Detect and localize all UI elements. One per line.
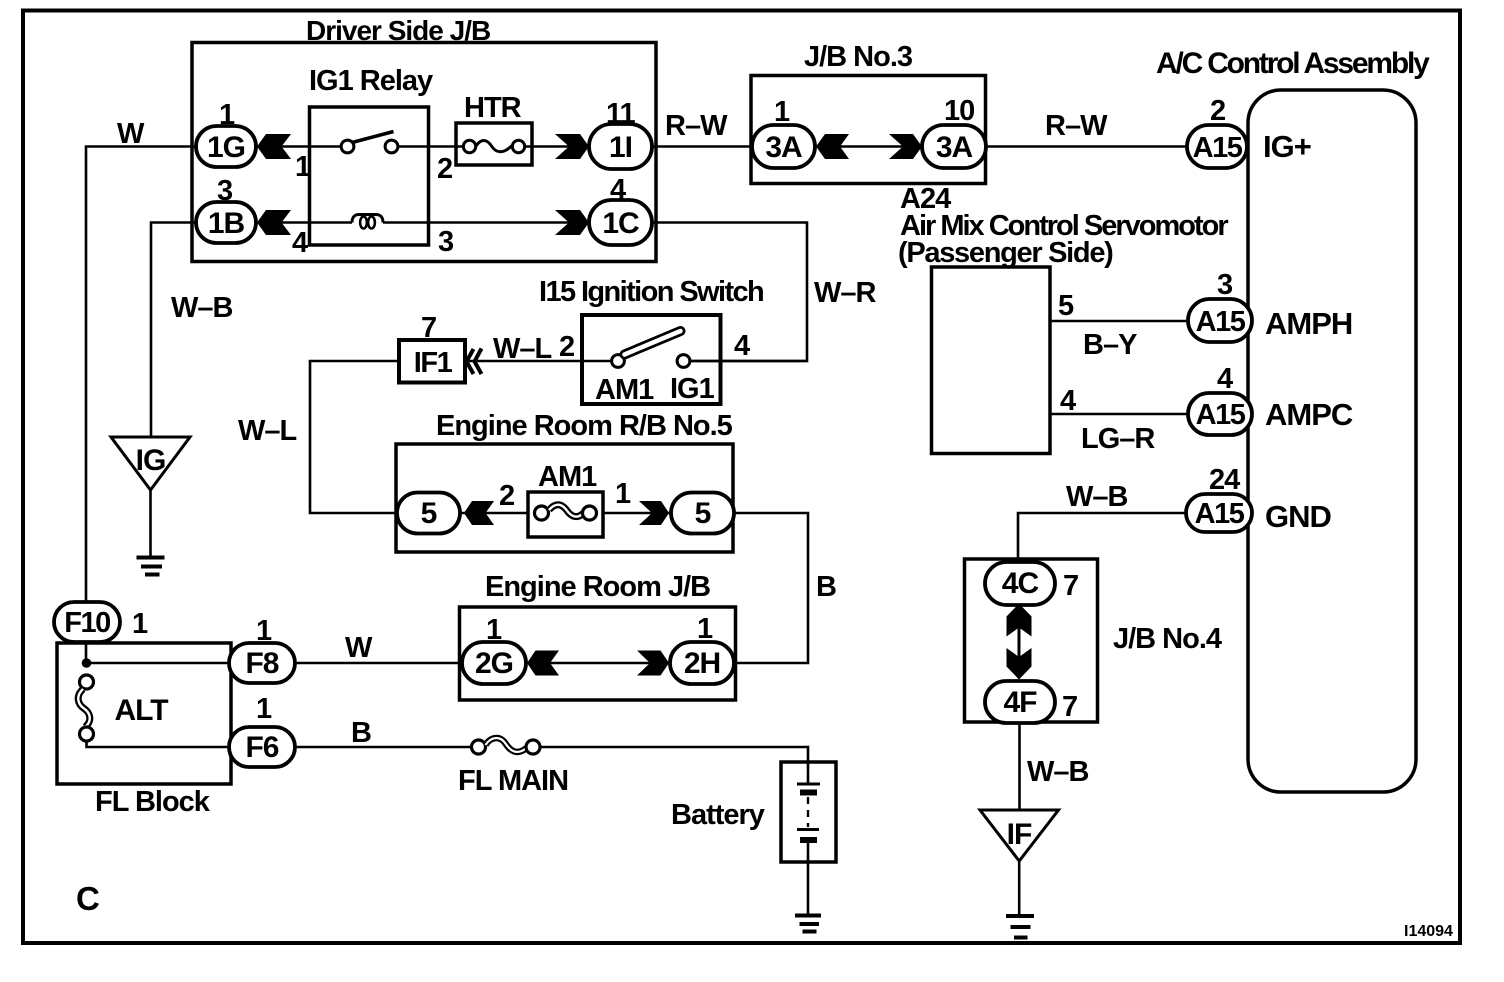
connector 3A left — [752, 125, 815, 168]
svg-text:F10: F10 — [64, 607, 110, 639]
svg-text:W: W — [345, 632, 373, 664]
svg-text:2: 2 — [559, 331, 574, 363]
servo pin 4 — [1060, 385, 1076, 417]
wire between 3A ovals — [815, 145, 922, 148]
svg-text:AM1: AM1 — [595, 374, 654, 406]
svg-text:IF1: IF1 — [414, 347, 453, 379]
connector A15 pin4 — [1188, 393, 1252, 435]
svg-text:1: 1 — [132, 608, 148, 640]
label AMPC — [1265, 397, 1353, 432]
svg-text:R–W: R–W — [1045, 110, 1108, 142]
fusible link IF1 box — [399, 340, 465, 383]
wire W junction dot to F8 — [86, 662, 231, 665]
relay IG1 box — [310, 107, 429, 245]
ALT fusible link symbol — [78, 675, 93, 741]
svg-text:24: 24 — [1209, 464, 1240, 496]
svg-text:IF: IF — [1007, 818, 1032, 851]
wire B F6 to FL MAIN — [295, 746, 472, 749]
connector 4F — [985, 681, 1055, 723]
arrow into 1C — [555, 210, 589, 235]
net label B vertical — [816, 571, 836, 603]
relay pin 3 — [438, 226, 454, 258]
svg-text:A15: A15 — [1195, 498, 1245, 530]
net label R-W left — [665, 110, 728, 142]
svg-text:B: B — [351, 717, 371, 749]
svg-text:2G: 2G — [475, 647, 513, 680]
net label LG-R — [1081, 423, 1155, 455]
svg-text:LG–R: LG–R — [1081, 423, 1155, 455]
net label W at F8 — [345, 632, 373, 664]
wire ALT to F6 — [87, 741, 230, 747]
label GND — [1265, 499, 1332, 534]
battery — [781, 762, 836, 862]
connector A15 pin3 — [1188, 299, 1252, 342]
svg-text:1: 1 — [615, 478, 631, 510]
wire W-B 4F to IF triangle — [1018, 723, 1021, 810]
svg-text:AMPH: AMPH — [1265, 306, 1352, 341]
A/C control assembly outline — [1248, 90, 1416, 792]
wire R-W 3A to A15 IG+ — [986, 145, 1187, 148]
net label W-B left — [171, 292, 233, 324]
svg-text:5: 5 — [1058, 290, 1074, 322]
pin 24 of A15 — [1209, 464, 1240, 496]
svg-text:2: 2 — [1210, 95, 1225, 127]
svg-text:1G: 1G — [207, 131, 245, 164]
wire W-B A15 GND to 4C — [1018, 513, 1186, 562]
junction node at ALT — [82, 658, 92, 668]
label Battery — [671, 799, 765, 831]
switch terminal IG1 — [670, 373, 715, 405]
relay pin 2 — [437, 153, 452, 185]
servo pin 5 — [1058, 290, 1074, 322]
connector 1G — [196, 126, 256, 167]
svg-text:3: 3 — [217, 175, 233, 207]
switch terminal AM1 — [595, 374, 654, 406]
pin 1 of 2G — [486, 614, 502, 646]
switch pin 4 — [734, 330, 750, 362]
svg-text:IG1: IG1 — [670, 373, 715, 405]
svg-text:3A: 3A — [936, 131, 973, 164]
svg-text:W–R: W–R — [814, 277, 877, 309]
connector 5 left — [397, 493, 460, 534]
ignition switch I15 box — [582, 315, 721, 404]
net label W-L at IF1 — [493, 333, 552, 365]
Engine Room J/B box — [460, 607, 736, 700]
fuse HTR — [456, 123, 532, 165]
net label B-Y — [1083, 329, 1137, 361]
wire R-W 1I to 3A — [652, 145, 752, 148]
wire 2G to 2H inside Engine Room J/B — [526, 662, 670, 665]
svg-text:1: 1 — [256, 615, 272, 647]
pin 7 of IF1 — [421, 312, 436, 344]
net label W-B at GND — [1066, 481, 1128, 513]
svg-text:J/B No.3: J/B No.3 — [804, 41, 913, 73]
relay IG1 contact — [341, 132, 398, 153]
label FL MAIN — [458, 765, 568, 797]
svg-text:10: 10 — [944, 95, 974, 127]
pin 1 of 1G — [219, 99, 235, 131]
pin 1 of 3A left — [774, 96, 790, 128]
arrow into 3A right — [889, 134, 922, 159]
svg-text:B: B — [816, 571, 836, 603]
arrow into 2H — [637, 651, 669, 676]
svg-text:I15 Ignition Switch: I15 Ignition Switch — [539, 276, 763, 308]
wire servomotor pin 4 to A15 AMPC — [1050, 413, 1188, 416]
net label W-L vertical — [238, 415, 297, 447]
ground triangle IF — [980, 810, 1059, 861]
svg-text:HTR: HTR — [464, 92, 522, 124]
svg-text:2: 2 — [437, 153, 452, 185]
wire 2G to F8 — [295, 662, 462, 665]
svg-text:IG+: IG+ — [1263, 129, 1311, 164]
svg-text:FL Block: FL Block — [95, 786, 211, 818]
wire between 4C and 4F — [1018, 626, 1021, 658]
wire 1G to relay contact — [256, 145, 341, 148]
wire AM1 fuse to 5 oval — [603, 512, 671, 515]
svg-text:A15: A15 — [1196, 399, 1246, 431]
svg-text:Driver Side J/B: Driver Side J/B — [306, 15, 490, 46]
wire W-L IF1 to R/B No.5 connector 5 — [310, 361, 399, 513]
wire B from 5 oval down to 2H — [734, 513, 808, 663]
svg-text:A15: A15 — [1196, 306, 1246, 338]
svg-text:W–L: W–L — [238, 415, 297, 447]
pin 4 of 1C — [610, 174, 626, 206]
net label W — [117, 118, 145, 150]
svg-text:B–Y: B–Y — [1083, 329, 1137, 361]
svg-text:1: 1 — [774, 96, 790, 128]
connector 1C — [589, 200, 652, 245]
arrow up 4C — [1007, 604, 1032, 637]
label Driver Side J/B — [306, 15, 490, 46]
svg-text:AM1: AM1 — [538, 461, 597, 493]
label C — [76, 880, 100, 917]
pin 7 of 4C — [1063, 570, 1078, 602]
label Air Mix Control Servomotor — [900, 210, 1228, 242]
connector F8 — [229, 643, 295, 683]
net label W-B at 4F — [1027, 756, 1089, 788]
svg-text:F6: F6 — [245, 731, 278, 764]
label IG+ — [1263, 129, 1311, 164]
pin 11 of 1I — [606, 98, 636, 130]
svg-text:W–B: W–B — [1027, 756, 1089, 788]
fuse pin 1 — [615, 478, 631, 510]
pin 4 of A15 — [1217, 363, 1233, 395]
Engine Room R/B No.5 box — [396, 444, 733, 552]
wire servomotor pin 5 to A15 AMPH — [1050, 320, 1188, 323]
pin 2 of A15 — [1210, 95, 1225, 127]
svg-text:(Passenger Side): (Passenger Side) — [898, 237, 1113, 269]
connector 4C — [985, 562, 1055, 605]
net label B at F6 — [351, 717, 371, 749]
svg-text:IG1 Relay: IG1 Relay — [309, 65, 433, 97]
connector F10 — [54, 602, 120, 642]
label Engine Room R/B No.5 — [436, 410, 733, 442]
svg-text:1: 1 — [486, 614, 502, 646]
wire 5 oval to AM1 fuse — [460, 512, 528, 515]
wire W-B 1B to IG triangle — [151, 223, 196, 438]
switch pin 2 — [559, 331, 574, 363]
net label W-R — [814, 277, 877, 309]
svg-text:FL MAIN: FL MAIN — [458, 765, 568, 797]
svg-text:3: 3 — [438, 226, 454, 258]
connector 1B — [196, 202, 256, 243]
wire IG triangle to ground — [149, 490, 152, 556]
arrow into 5 left — [464, 501, 494, 525]
arrow into 1I — [555, 134, 589, 159]
wire IF triangle to ground — [1018, 861, 1021, 914]
svg-text:4C: 4C — [1002, 567, 1039, 600]
ground below IF — [1006, 916, 1034, 938]
wire 1B to relay coil — [256, 221, 352, 224]
label J/B No.4 — [1113, 623, 1222, 655]
arrow into 2G — [527, 651, 559, 676]
svg-text:4: 4 — [1060, 385, 1076, 417]
pin 1 of F10 — [132, 608, 148, 640]
wire W-R 1C to ignition switch pin 4 — [652, 223, 807, 362]
svg-text:Battery: Battery — [671, 799, 765, 831]
pin 1 of F8 — [256, 615, 272, 647]
connector 5 right — [671, 493, 734, 534]
svg-text:C: C — [76, 880, 100, 917]
svg-text:R–W: R–W — [665, 110, 728, 142]
pin 3 of A15 — [1217, 269, 1233, 301]
wire W-L ignition switch pin 2 to IF1 — [465, 360, 612, 363]
Driver Side J/B box — [192, 43, 656, 262]
label IG1 Relay — [309, 65, 433, 97]
ground triangle IG — [111, 437, 190, 490]
label A/C Control Assembly — [1156, 47, 1430, 80]
ignition switch contacts AM1/IG1 — [612, 331, 807, 367]
wire relay coil to 1C — [383, 221, 589, 224]
svg-text:IG: IG — [136, 444, 166, 477]
svg-text:5: 5 — [421, 497, 437, 530]
wire HTR to 1I — [525, 145, 589, 148]
label J/B No.3 — [804, 41, 913, 73]
svg-text:11: 11 — [606, 98, 636, 130]
svg-text:4: 4 — [292, 227, 308, 259]
svg-text:GND: GND — [1265, 499, 1332, 534]
arrow into 1G — [257, 134, 291, 159]
svg-text:1C: 1C — [602, 207, 639, 240]
svg-text:J/B No.4: J/B No.4 — [1113, 623, 1222, 655]
connector F6 — [229, 727, 295, 767]
label HTR — [464, 92, 522, 124]
relay pin 4 — [292, 227, 308, 259]
svg-text:3: 3 — [1217, 269, 1233, 301]
label FL Block — [95, 786, 211, 818]
wire battery to ground — [807, 843, 810, 914]
svg-text:Engine Room R/B No.5: Engine Room R/B No.5 — [436, 410, 733, 442]
svg-text:1B: 1B — [208, 207, 245, 240]
svg-text:7: 7 — [1063, 570, 1078, 602]
svg-text:ALT: ALT — [114, 694, 168, 727]
arrow into 5 right — [639, 501, 669, 525]
svg-text:4: 4 — [1217, 363, 1233, 395]
svg-text:W–B: W–B — [1066, 481, 1128, 513]
svg-text:A15: A15 — [1193, 132, 1243, 164]
svg-text:7: 7 — [421, 312, 436, 344]
connector A15 pin24 — [1186, 494, 1252, 532]
arrow into 1B — [257, 210, 291, 235]
svg-text:2: 2 — [499, 480, 514, 512]
arrow into 3A left — [816, 134, 849, 159]
servomotor A24 box — [932, 267, 1051, 454]
svg-text:1: 1 — [219, 99, 235, 131]
svg-text:4: 4 — [610, 174, 626, 206]
connector 2H — [670, 642, 734, 684]
fuse AM1 in R/B No.5 — [528, 492, 603, 537]
svg-text:4F: 4F — [1003, 686, 1037, 719]
pin 3 of 1B — [217, 175, 233, 207]
relay IG1 coil — [352, 215, 383, 229]
pin 10 of 3A right — [944, 95, 974, 127]
svg-text:3A: 3A — [765, 131, 802, 164]
connector A15 pin2 — [1187, 125, 1247, 168]
label AMPH — [1265, 306, 1352, 341]
svg-text:1: 1 — [697, 613, 713, 645]
arrow down 4F — [1007, 648, 1032, 680]
J/B No.3 box — [751, 76, 986, 184]
label (Passenger Side) — [898, 237, 1113, 269]
net label R-W right — [1045, 110, 1108, 142]
svg-text:7: 7 — [1062, 691, 1077, 723]
pin 7 of 4F — [1062, 691, 1077, 723]
wire W from 1G to ALT — [86, 147, 196, 664]
svg-text:5: 5 — [695, 497, 711, 530]
connector 3A right — [922, 125, 986, 168]
svg-text:2H: 2H — [684, 647, 720, 680]
svg-text:1: 1 — [295, 151, 311, 183]
label AM1 fuse — [538, 461, 597, 493]
svg-text:A/C Control Assembly: A/C Control Assembly — [1156, 47, 1430, 80]
label I15 Ignition Switch — [539, 276, 763, 308]
svg-text:W: W — [117, 118, 145, 150]
label I14094 — [1404, 923, 1453, 940]
pin 1 of 2H — [697, 613, 713, 645]
svg-text:Engine Room J/B: Engine Room J/B — [485, 571, 710, 603]
svg-text:W–L: W–L — [493, 333, 552, 365]
connector 2G — [462, 642, 526, 684]
fuse pin 2 — [499, 480, 514, 512]
wire FL MAIN to battery — [540, 747, 808, 762]
svg-text:1: 1 — [256, 693, 272, 725]
label A24 — [900, 183, 951, 215]
relay pin 1 — [295, 151, 311, 183]
ALT block box — [57, 643, 231, 784]
wire relay contact to HTR — [398, 145, 463, 148]
J/B No.4 box — [965, 559, 1098, 722]
connector 1I — [589, 124, 652, 169]
pin 1 of F6 — [256, 693, 272, 725]
ground below battery — [795, 916, 821, 932]
fusible link FL MAIN — [472, 738, 541, 754]
svg-text:F8: F8 — [245, 647, 278, 680]
label Engine Room J/B — [485, 571, 710, 603]
svg-text:AMPC: AMPC — [1265, 397, 1353, 432]
ground below IG — [137, 558, 165, 575]
svg-text:1I: 1I — [609, 131, 632, 164]
double chevron at IF1 — [467, 349, 482, 375]
svg-text:4: 4 — [734, 330, 750, 362]
svg-text:I14094: I14094 — [1404, 923, 1453, 940]
svg-text:W–B: W–B — [171, 292, 233, 324]
